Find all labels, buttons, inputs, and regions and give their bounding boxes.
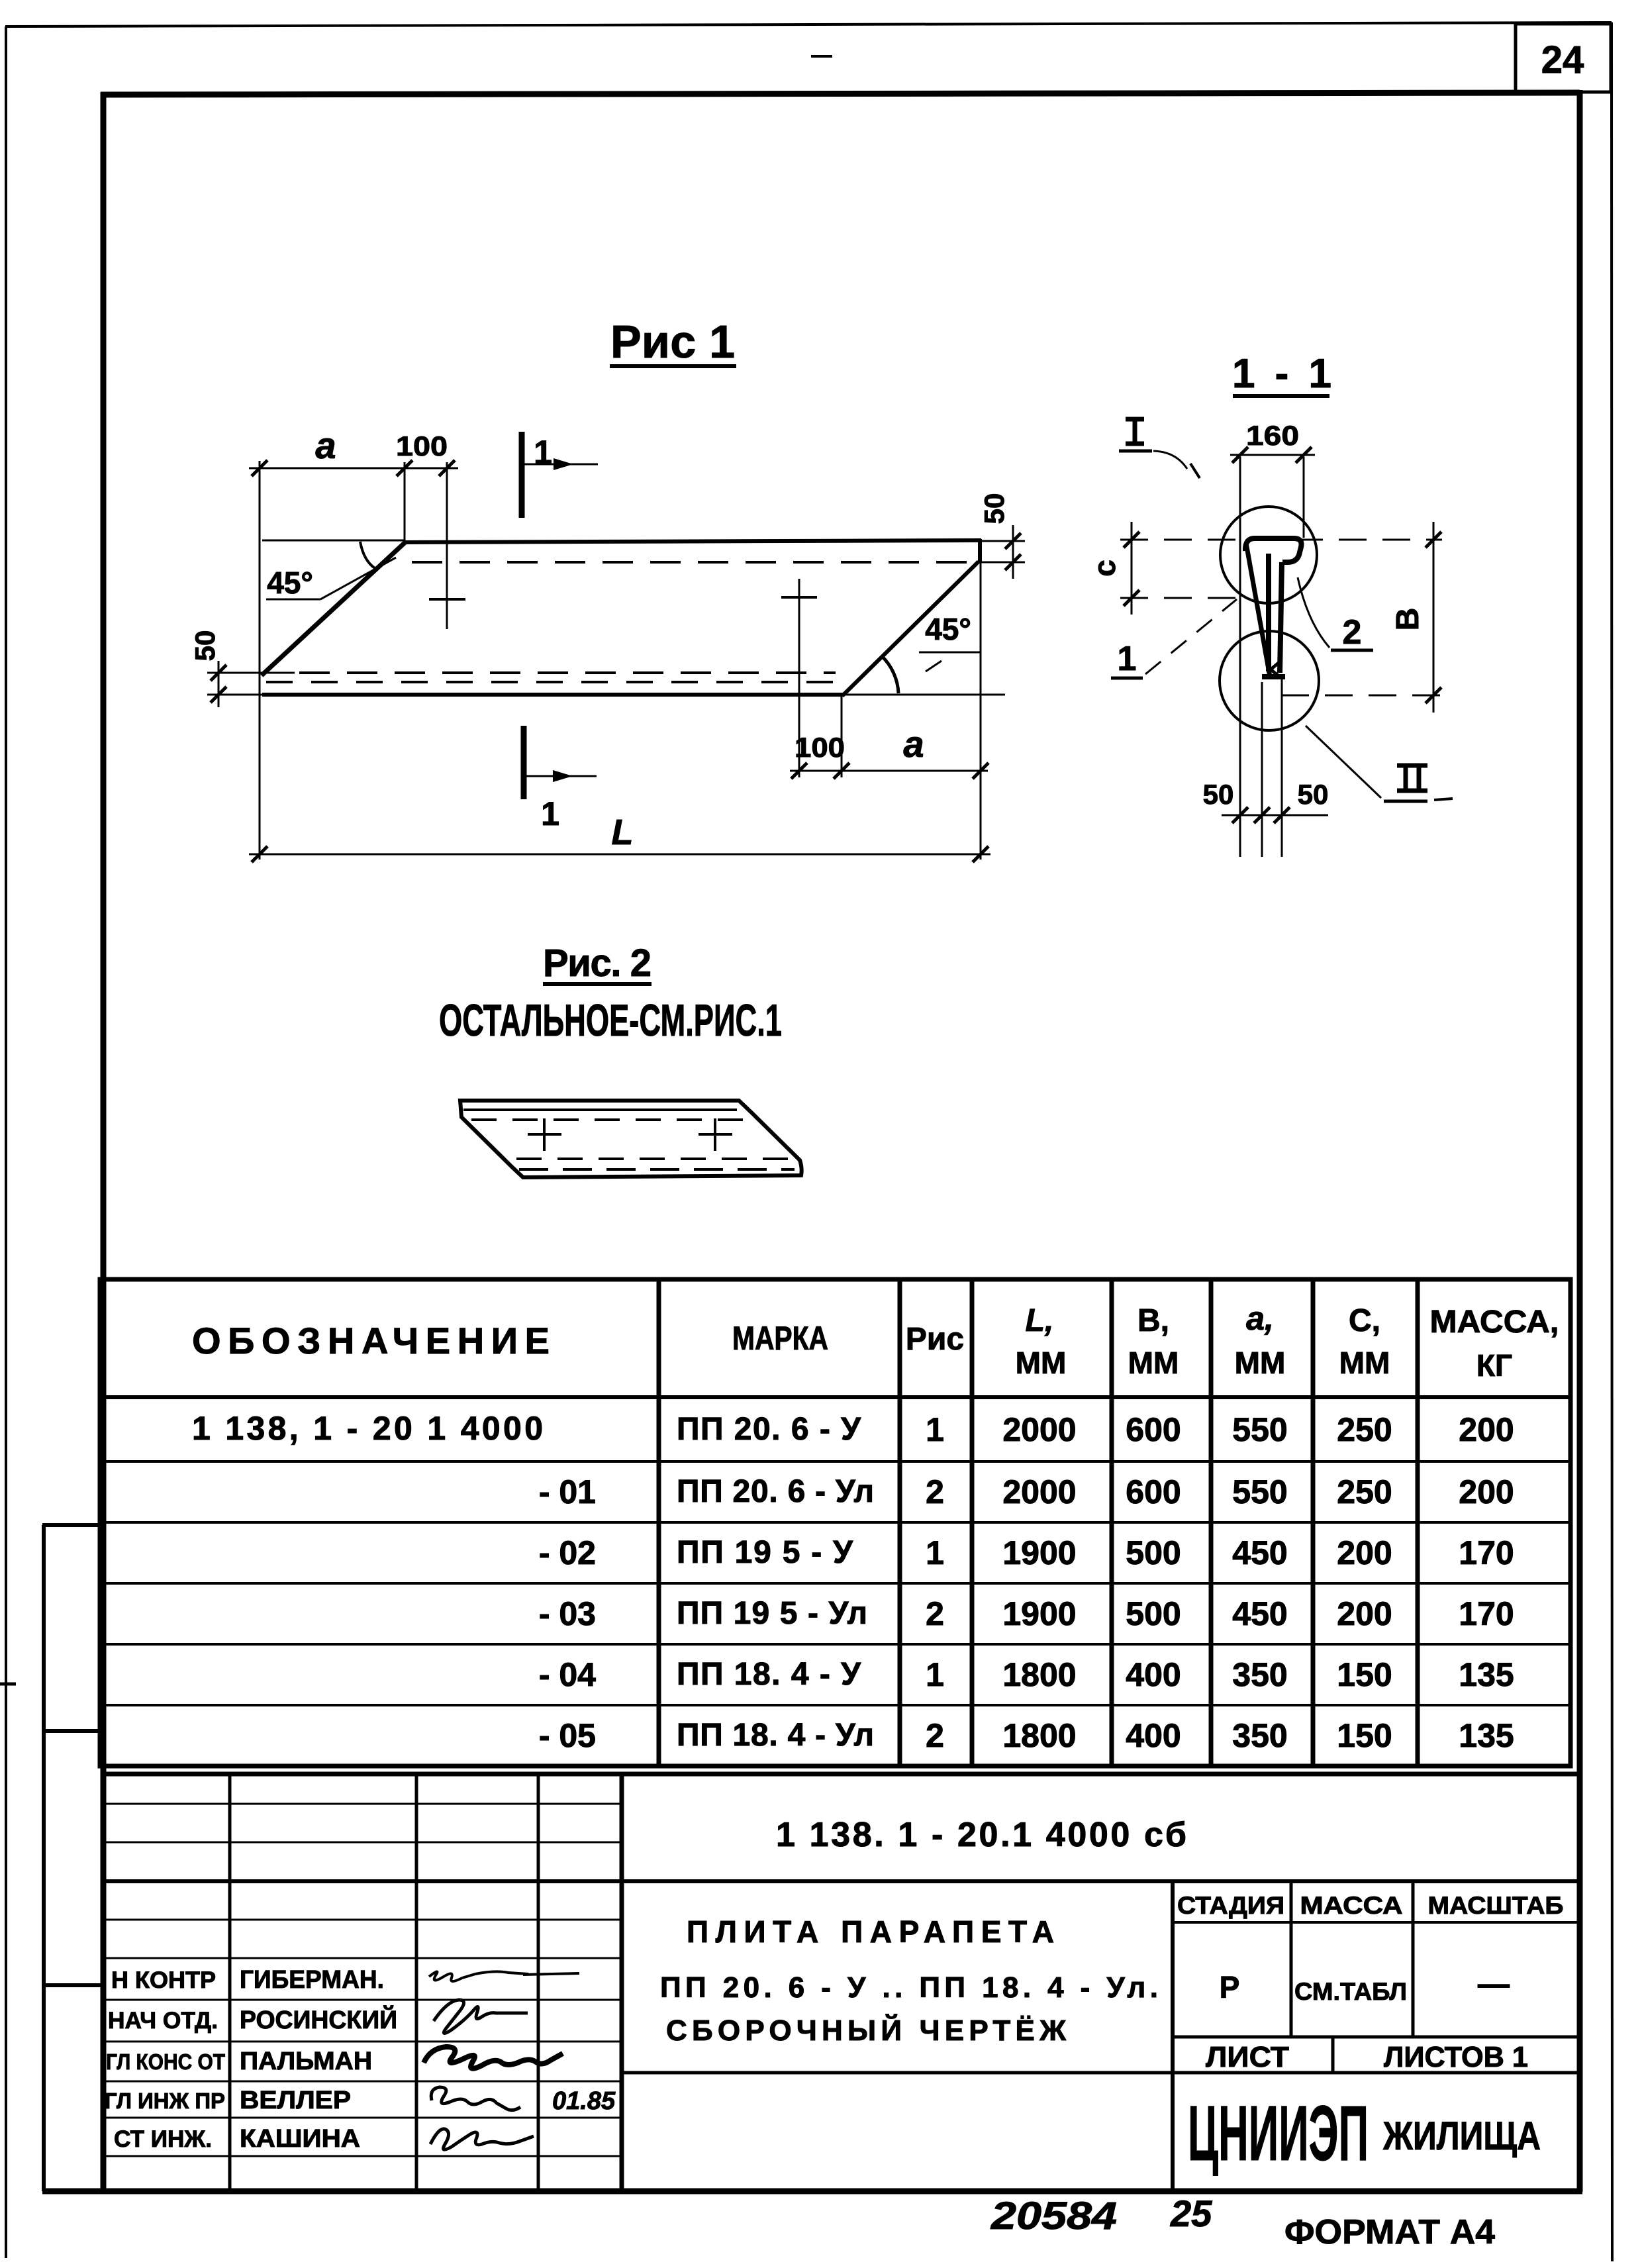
- inner frame bottom / title block bottom: [42, 2189, 1582, 2194]
- fig1 ext line right end: [980, 539, 982, 860]
- svg-text:350: 350: [1232, 1717, 1287, 1754]
- sig col line 2: [415, 1774, 418, 2191]
- fig1 tick L right: [973, 846, 989, 862]
- fig1 heading underline: [610, 364, 736, 368]
- signature giberman dash: [523, 1973, 579, 1975]
- pos label 1 underline: [1111, 677, 1143, 680]
- signature giberman: [429, 1971, 528, 1981]
- svg-text:24: 24: [1541, 38, 1584, 81]
- svg-text:Н КОНТР: Н КОНТР: [111, 1967, 216, 1993]
- outer page border right: [1612, 23, 1612, 2261]
- detail I leader: [1153, 451, 1187, 469]
- page number box: [1516, 24, 1611, 92]
- detail II underline dash: [1434, 799, 1453, 800]
- table col line massa: [1416, 1279, 1420, 1766]
- fig1 tick right a: [973, 763, 989, 779]
- svg-text:ПП 18. 4 - Ул: ПП 18. 4 - Ул: [677, 1718, 874, 1753]
- fig1 section arrow head top: [554, 458, 573, 470]
- sig row line c: [101, 1919, 622, 1921]
- outer page border left: [5, 26, 7, 2258]
- profile bottom foot: [1262, 674, 1285, 679]
- sig row line f: [101, 2041, 622, 2043]
- inner frame left: [101, 92, 107, 2192]
- fig1 45 left leader: [320, 558, 396, 599]
- dim 160 line: [1230, 454, 1315, 456]
- svg-text:350: 350: [1232, 1656, 1287, 1693]
- dim C line: [1131, 522, 1133, 615]
- fig1 dim line a-100: [249, 468, 458, 469]
- sig row line d: [101, 1957, 622, 1959]
- signature rosinskiy: [434, 2000, 528, 2034]
- svg-text:ЦНИИЭП: ЦНИИЭП: [1188, 2090, 1369, 2177]
- svg-text:ММ: ММ: [1235, 1346, 1286, 1380]
- detail circle II: [1220, 631, 1319, 730]
- svg-text:500: 500: [1126, 1595, 1181, 1632]
- fig2 plate outline: [460, 1101, 802, 1177]
- svg-text:600: 600: [1126, 1473, 1181, 1510]
- fig1 tick right 100 right: [834, 763, 849, 779]
- table col line marka: [657, 1279, 661, 1766]
- svg-text:200: 200: [1459, 1473, 1514, 1510]
- svg-text:МАРКА: МАРКА: [732, 1320, 828, 1357]
- dim C tick top: [1124, 532, 1139, 548]
- sig col line 3: [537, 1774, 540, 2191]
- svg-text:- 01: - 01: [539, 1473, 596, 1510]
- svg-text:50: 50: [189, 630, 220, 662]
- svg-text:01.85: 01.85: [552, 2087, 616, 2115]
- svg-text:135: 135: [1459, 1717, 1514, 1754]
- fig2 dashed bottom 1: [516, 1158, 793, 1160]
- fig2 dashed top: [471, 1118, 745, 1121]
- svg-text:400: 400: [1126, 1656, 1181, 1693]
- svg-text:45°: 45°: [267, 566, 313, 600]
- svg-text:МАССА,: МАССА,: [1430, 1305, 1559, 1340]
- fig1 section cut arrow line bottom: [524, 775, 597, 777]
- svg-text:50: 50: [979, 493, 1010, 524]
- fig1 dim line 100-a right: [790, 770, 988, 772]
- fig1 right 50 proj line bottom: [979, 562, 1025, 564]
- detail label II underline: [1384, 800, 1427, 803]
- svg-text:200: 200: [1337, 1595, 1392, 1632]
- svg-text:a: a: [903, 723, 924, 765]
- table col line C: [1311, 1279, 1316, 1766]
- svg-text:2000: 2000: [1002, 1473, 1076, 1510]
- svg-text:- 04: - 04: [539, 1656, 596, 1693]
- svg-text:1 138. 1 - 20.1 4000 сб: 1 138. 1 - 20.1 4000 сб: [776, 1816, 1186, 1854]
- fig2 cross right vertical: [714, 1118, 716, 1151]
- svg-text:СБОРОЧНЫЙ ЧЕРТЁЖ: СБОРОЧНЫЙ ЧЕРТЁЖ: [666, 2013, 1066, 2047]
- svg-text:1800: 1800: [1002, 1656, 1076, 1693]
- svg-text:ЛИСТ: ЛИСТ: [1206, 2041, 1289, 2073]
- detail circle I: [1220, 507, 1317, 603]
- svg-text:- 05: - 05: [539, 1717, 596, 1754]
- svg-text:160: 160: [1246, 420, 1299, 451]
- title row line full: [101, 1879, 1580, 1883]
- svg-text:ПП 19 5 - У: ПП 19 5 - У: [677, 1535, 853, 1570]
- left attached column outer edge: [42, 1525, 46, 2191]
- svg-text:170: 170: [1459, 1534, 1514, 1571]
- dim 50-50 tick 3: [1274, 807, 1290, 823]
- sig row line i: [101, 2155, 622, 2157]
- sig row line a: [101, 1803, 622, 1805]
- svg-text:450: 450: [1232, 1534, 1287, 1571]
- stadia row bottom: [1173, 2036, 1580, 2039]
- svg-text:Рис 1: Рис 1: [610, 316, 735, 368]
- svg-text:600: 600: [1126, 1411, 1181, 1448]
- svg-text:ГИБЕРМАН.: ГИБЕРМАН.: [240, 1966, 384, 1994]
- dim C tick bottom: [1124, 590, 1139, 606]
- svg-text:РОСИНСКИЙ: РОСИНСКИЙ: [240, 2004, 397, 2034]
- left margin binding mark: [0, 1683, 16, 1686]
- profile foot notch lower: [1271, 669, 1280, 677]
- stadia col line 2: [1412, 1881, 1415, 2037]
- fig1 right 50 tick bottom: [1005, 554, 1021, 570]
- detail II leader: [1306, 726, 1381, 798]
- fig1 left 50 dim line: [218, 661, 220, 707]
- svg-text:- 03: - 03: [539, 1595, 596, 1632]
- title block top line: [101, 1772, 1580, 1777]
- profile top bar with nose: [1245, 538, 1302, 562]
- fig1 hidden edge dashed bottom 1: [299, 671, 836, 674]
- svg-text:ГЛ КОНС ОТ: ГЛ КОНС ОТ: [106, 2049, 225, 2074]
- svg-text:50: 50: [1298, 779, 1329, 810]
- svg-text:a: a: [315, 424, 336, 466]
- section ext line right short: [1303, 457, 1305, 538]
- svg-text:1: 1: [541, 795, 559, 832]
- dim 50-50 tick 2: [1254, 807, 1270, 823]
- svg-text:СТ ИНЖ.: СТ ИНЖ.: [114, 2126, 212, 2152]
- fig1 section cut line bottom: [521, 726, 527, 799]
- stadia col line 1: [1290, 1881, 1293, 2037]
- fig1 45 right arc: [882, 656, 898, 693]
- svg-text:ПП 19 5 - Ул: ПП 19 5 - Ул: [677, 1596, 867, 1631]
- left column divider 2: [42, 1729, 103, 1733]
- section ext line left long: [1239, 457, 1241, 857]
- table col line ris: [898, 1279, 902, 1766]
- svg-text:a,: a,: [1246, 1300, 1274, 1337]
- pos label 2 underline: [1331, 649, 1373, 652]
- svg-text:ОБОЗНАЧЕНИЕ: ОБОЗНАЧЕНИЕ: [192, 1320, 550, 1361]
- svg-text:2: 2: [926, 1717, 944, 1754]
- dim 160 tick left: [1232, 447, 1248, 463]
- svg-text:ПАЛЬМАН: ПАЛЬМАН: [240, 2047, 372, 2075]
- fig1 tick a left: [252, 460, 267, 476]
- pos 1 dashed leader: [1145, 599, 1237, 674]
- svg-text:НАЧ ОТД.: НАЧ ОТД.: [108, 2008, 218, 2034]
- fig1 right 50 proj line top: [981, 540, 1025, 542]
- stadia block vertical: [1171, 1881, 1175, 2191]
- svg-text:ЖИЛИЩА: ЖИЛИЩА: [1382, 2114, 1541, 2158]
- svg-text:Рис: Рис: [906, 1322, 964, 1357]
- svg-text:ВЕЛЛЕР: ВЕЛЛЕР: [240, 2087, 351, 2114]
- fig1 45 right leader dash: [926, 661, 942, 671]
- fig2 cross left vertical: [543, 1118, 546, 1151]
- section heading underline: [1233, 394, 1329, 398]
- detail label I underline: [1119, 450, 1152, 453]
- dim B tick bottom: [1425, 687, 1441, 703]
- svg-text:135: 135: [1459, 1656, 1514, 1693]
- left column divider 3: [42, 1983, 103, 1987]
- svg-text:150: 150: [1337, 1656, 1392, 1693]
- fig1 section cut line top: [519, 432, 525, 518]
- svg-text:1800: 1800: [1002, 1717, 1076, 1754]
- svg-text:2: 2: [926, 1595, 944, 1632]
- svg-text:ММ: ММ: [1128, 1346, 1179, 1380]
- svg-text:КАШИНА: КАШИНА: [240, 2125, 360, 2153]
- section bottom ext line right: [1281, 678, 1283, 857]
- profile left face slanted: [1246, 543, 1270, 677]
- svg-text:200: 200: [1459, 1411, 1514, 1448]
- table row line 5: [100, 1704, 1570, 1706]
- table col line a: [1209, 1279, 1214, 1766]
- svg-text:Рис. 2: Рис. 2: [543, 942, 652, 985]
- svg-text:ПП 18. 4 - У: ПП 18. 4 - У: [677, 1657, 861, 1692]
- left column divider 1: [42, 1523, 103, 1527]
- fig1 tick 100 right: [439, 460, 455, 476]
- svg-text:Р: Р: [1220, 1970, 1240, 2004]
- fig1 ext line right chamfer bottom: [841, 697, 843, 777]
- fig1 section cut arrow line top: [522, 464, 598, 466]
- svg-text:L: L: [612, 813, 634, 852]
- svg-text:2: 2: [926, 1473, 944, 1510]
- fig1 lifting point cross left: [429, 598, 465, 601]
- svg-text:1 138, 1 - 20 1 4000: 1 138, 1 - 20 1 4000: [192, 1410, 543, 1447]
- inner frame top: [101, 93, 1580, 95]
- svg-text:ПП 20. 6 - У: ПП 20. 6 - У: [677, 1412, 861, 1447]
- fig1 tick right 100 left: [791, 763, 807, 779]
- svg-text:ММ: ММ: [1339, 1346, 1390, 1380]
- table row line 2: [100, 1521, 1570, 1524]
- svg-text:СТАДИЯ: СТАДИЯ: [1177, 1892, 1284, 1919]
- svg-text:1 - 1: 1 - 1: [1232, 351, 1331, 397]
- svg-text:L,: L,: [1026, 1303, 1054, 1338]
- table col line L: [970, 1279, 975, 1766]
- fig1 extension line left: [259, 461, 261, 860]
- fig1 plate right chamfer 45: [842, 562, 979, 696]
- inner frame right: [1577, 90, 1583, 2192]
- detail I leader tip: [1190, 464, 1200, 478]
- svg-text:С,: С,: [1349, 1303, 1380, 1338]
- fig1 top corner projection line left: [262, 540, 405, 542]
- fig1 left 50 tick bottom: [211, 687, 226, 703]
- fig1 hidden edge dashed top: [412, 561, 976, 564]
- section centerline dashed bottom-right: [1281, 695, 1442, 697]
- title main divider vertical: [620, 1774, 624, 2191]
- fig1 section arrow head bottom: [553, 770, 573, 782]
- svg-text:ГЛ ИНЖ ПР: ГЛ ИНЖ ПР: [105, 2089, 225, 2113]
- fig1 plate right end vertical: [978, 539, 982, 563]
- svg-text:1900: 1900: [1002, 1534, 1076, 1571]
- fig1 plate bottom edge: [262, 693, 844, 697]
- svg-text:ММ: ММ: [1016, 1346, 1067, 1380]
- fig1 lifting point cross right: [781, 596, 817, 599]
- dim 50-50 tick 1: [1232, 807, 1248, 823]
- pos 2 leader: [1298, 577, 1329, 648]
- svg-text:450: 450: [1232, 1595, 1287, 1632]
- sig row line h: [101, 2117, 622, 2119]
- fig1 45 left arc: [360, 542, 375, 568]
- table col line B: [1110, 1279, 1114, 1766]
- svg-text:ФОРМАТ А4: ФОРМАТ А4: [1284, 2213, 1495, 2251]
- stadia header underline: [1173, 1921, 1580, 1924]
- svg-text:1: 1: [1118, 640, 1137, 678]
- svg-text:25: 25: [1170, 2193, 1212, 2234]
- svg-text:170: 170: [1459, 1595, 1514, 1632]
- signature kashina: [430, 2129, 534, 2149]
- svg-text:45°: 45°: [925, 612, 971, 646]
- profile foot notch upper: [1270, 663, 1279, 670]
- svg-text:200: 200: [1337, 1534, 1392, 1571]
- fig1 extension line 100: [446, 462, 448, 629]
- fig2 heading underline: [543, 982, 652, 986]
- fig1 tick L left: [252, 846, 267, 862]
- svg-text:250: 250: [1337, 1473, 1392, 1510]
- fig2 cross left horizontal: [528, 1133, 561, 1136]
- fig1 dim line L: [249, 854, 990, 856]
- svg-text:20584: 20584: [990, 2194, 1117, 2238]
- table outer border: [100, 1279, 1570, 1766]
- fig1 45 left underline: [266, 599, 320, 601]
- fig2 top edge inner line: [463, 1109, 737, 1111]
- table row line 4: [100, 1643, 1570, 1646]
- profile inner web: [1266, 554, 1271, 671]
- svg-text:1: 1: [926, 1411, 944, 1448]
- svg-text:1: 1: [926, 1656, 944, 1693]
- sig col line 1: [228, 1774, 232, 2191]
- svg-text:100: 100: [795, 732, 845, 763]
- fig1 right 50 tick top: [1005, 533, 1021, 549]
- fig1 right 50 dim line: [1012, 525, 1014, 579]
- signature palman: [424, 2047, 563, 2069]
- fig1 hidden edge solid stub bottom-left: [207, 672, 295, 674]
- section centerline dashed top: [1120, 539, 1442, 541]
- dim 160 tick right: [1296, 447, 1312, 463]
- section bottom ext line mid: [1261, 682, 1263, 857]
- svg-text:2000: 2000: [1002, 1411, 1076, 1448]
- svg-text:ПЛИТА ПАРАПЕТА: ПЛИТА ПАРАПЕТА: [687, 1914, 1054, 1949]
- profile right web: [1280, 562, 1282, 673]
- svg-text:ЛИСТОВ 1: ЛИСТОВ 1: [1384, 2041, 1528, 2073]
- svg-text:—: —: [1478, 1967, 1510, 2002]
- detail label I: [1126, 419, 1144, 444]
- svg-text:МАССА: МАССА: [1300, 1892, 1403, 1919]
- sig row line g: [101, 2081, 622, 2083]
- fig1 extension line at chamfer top: [404, 462, 406, 543]
- fig1 left 50 tick top: [211, 665, 226, 681]
- top center registration dash: [811, 55, 832, 58]
- table row line 3: [100, 1582, 1570, 1585]
- fig1 45 right pointer line: [919, 652, 981, 654]
- dim B tick top: [1425, 532, 1441, 548]
- svg-text:1: 1: [926, 1534, 944, 1571]
- fig1 hidden edge dashed bottom 2: [266, 681, 838, 683]
- fig1 bottom edge thin extension right: [844, 694, 1005, 696]
- svg-text:500: 500: [1126, 1534, 1181, 1571]
- svg-text:150: 150: [1337, 1717, 1392, 1754]
- detail label II: [1397, 765, 1427, 791]
- svg-text:550: 550: [1232, 1411, 1287, 1448]
- svg-text:ПП 20. 6 - У .. ПП 18. 4 - У: ПП 20. 6 - У .. ПП 18. 4 - Ул.: [660, 1971, 1158, 2004]
- fig2 dashed bottom 2: [519, 1168, 795, 1171]
- fig1 plate top edge: [405, 540, 981, 542]
- svg-text:ПП 20. 6 - Ул: ПП 20. 6 - Ул: [677, 1474, 874, 1509]
- fig2 cross right horizontal: [699, 1133, 732, 1136]
- svg-text:50: 50: [1203, 779, 1234, 810]
- table header bottom line: [100, 1395, 1570, 1399]
- signature veller: [431, 2087, 520, 2110]
- list row bottom: [622, 2071, 1580, 2075]
- svg-text:ОСТАЛЬНОЕ-СМ.РИС.1: ОСТАЛЬНОЕ-СМ.РИС.1: [439, 995, 782, 1046]
- table row line 1: [100, 1460, 1570, 1463]
- section centerline dashed mid-left: [1120, 597, 1242, 599]
- outer page border top: [5, 23, 1612, 26]
- svg-text:В: В: [1390, 608, 1425, 631]
- sig row line b: [101, 1842, 622, 1844]
- dim 50-50 line: [1222, 814, 1328, 816]
- svg-text:МАСШТАБ: МАСШТАБ: [1428, 1892, 1564, 1919]
- fig1 plate left chamfer 45: [262, 542, 406, 675]
- fig1 bottom edge thin extension left: [207, 694, 262, 696]
- sig row line e: [101, 1999, 622, 2001]
- svg-text:100: 100: [396, 430, 448, 462]
- svg-text:250: 250: [1337, 1411, 1392, 1448]
- dim B line: [1433, 522, 1435, 713]
- svg-text:1: 1: [534, 434, 552, 471]
- svg-text:550: 550: [1232, 1473, 1287, 1510]
- fig1 right cross vertical / ext line 100: [798, 579, 800, 777]
- fig1 tick a right: [397, 460, 412, 476]
- svg-text:СМ.ТАБЛ: СМ.ТАБЛ: [1294, 1978, 1407, 2005]
- svg-text:c: c: [1087, 560, 1122, 577]
- svg-text:1900: 1900: [1002, 1595, 1076, 1632]
- svg-text:КГ: КГ: [1476, 1348, 1512, 1383]
- svg-text:2: 2: [1343, 613, 1362, 652]
- svg-text:В,: В,: [1137, 1303, 1169, 1338]
- svg-text:400: 400: [1126, 1717, 1181, 1754]
- svg-text:- 02: - 02: [539, 1534, 596, 1571]
- list divider: [1331, 2037, 1335, 2073]
